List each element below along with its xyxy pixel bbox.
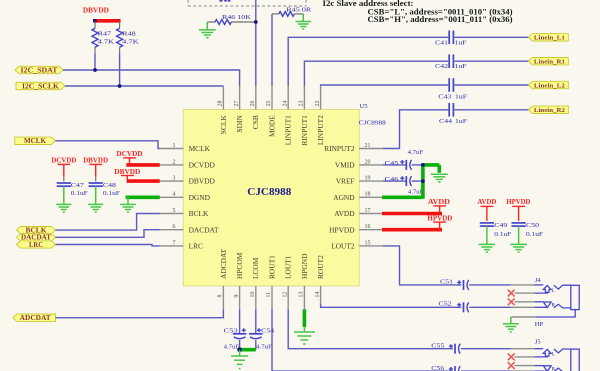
power DBVDD top bbox=[83, 6, 121, 21]
power AVDD at C49 bbox=[477, 197, 496, 221]
svg-text:LCOM: LCOM bbox=[251, 257, 260, 279]
svg-text:1: 1 bbox=[173, 143, 176, 149]
svg-text:4.7uF: 4.7uF bbox=[224, 343, 240, 350]
svg-text:C54: C54 bbox=[261, 328, 275, 335]
power DCVDD at pin 2 bbox=[117, 149, 143, 165]
svg-text:14: 14 bbox=[315, 292, 321, 298]
J5 R switch throw wire bbox=[514, 365, 543, 367]
J5 ring spring contact wave bbox=[554, 368, 571, 371]
capacitor C46 bbox=[385, 176, 424, 196]
svg-text:C55: C55 bbox=[431, 343, 445, 350]
wire ROUT1 pin 11 to C56 bbox=[272, 309, 453, 371]
svg-text:DACDAT: DACDAT bbox=[189, 225, 219, 234]
svg-text:BCLK: BCLK bbox=[189, 209, 209, 218]
wire HPCOM pin 9 down bbox=[239, 309, 241, 334]
svg-text:HPGND: HPGND bbox=[300, 253, 309, 279]
wire C55 to J5 tip bbox=[461, 348, 511, 350]
J5 L switch throw wire bbox=[514, 355, 547, 358]
chip left pin names bbox=[189, 144, 219, 250]
J5 tip spring contact wave bbox=[554, 349, 571, 353]
svg-text:C52: C52 bbox=[439, 301, 452, 308]
svg-text:DBVDD: DBVDD bbox=[114, 167, 140, 176]
chip top pin numbers bbox=[218, 101, 321, 107]
ground for R45 bbox=[302, 14, 304, 21]
svg-text:Linein_R1: Linein_R1 bbox=[534, 59, 565, 66]
svg-text:13: 13 bbox=[299, 292, 305, 298]
svg-text:6: 6 bbox=[173, 224, 176, 230]
svg-text:DBVDD: DBVDD bbox=[189, 177, 216, 186]
wire LINPUT1 to C41 bbox=[288, 37, 448, 86]
J5 ring contact triangle R bbox=[543, 366, 551, 371]
svg-text:AVDD: AVDD bbox=[428, 197, 450, 206]
port Linein_L1 bbox=[529, 34, 569, 41]
junction R46/CSB bbox=[254, 20, 258, 24]
J5 tip pin stub bbox=[511, 348, 535, 350]
svg-text:ADCDAT: ADCDAT bbox=[20, 314, 51, 322]
svg-text:C48: C48 bbox=[103, 182, 117, 189]
svg-text:10: 10 bbox=[250, 292, 256, 298]
resistor R48 bbox=[117, 22, 139, 86]
svg-text:ADCDAT: ADCDAT bbox=[219, 249, 228, 279]
svg-text:C49: C49 bbox=[494, 222, 508, 229]
svg-text:4.7uF: 4.7uF bbox=[408, 149, 424, 156]
wire HPGND pin 13 thick green bbox=[303, 309, 307, 327]
wire C46 to rail bbox=[412, 180, 423, 182]
svg-text:C44: C44 bbox=[439, 118, 453, 125]
svg-text:RINPUT2: RINPUT2 bbox=[324, 144, 355, 153]
svg-text:VMID: VMID bbox=[335, 161, 355, 170]
J4 L switch throw wire bbox=[514, 291, 547, 294]
ground AGND bbox=[431, 174, 448, 182]
svg-text:3: 3 bbox=[173, 176, 176, 182]
junction on DBVDD bar bbox=[93, 19, 97, 23]
J4 ring pin stub bbox=[511, 306, 535, 308]
wire ROUT2 pin 14 to C52 bbox=[321, 304, 462, 307]
svg-text:SDIN: SDIN bbox=[235, 115, 244, 133]
port I2C_SCLK bbox=[16, 82, 65, 89]
svg-text:LOUT1: LOUT1 bbox=[284, 255, 293, 279]
svg-text:C43: C43 bbox=[438, 94, 452, 101]
no-connect X on J5 L throw bbox=[508, 354, 515, 361]
power HPVDD at C50 bbox=[506, 197, 530, 221]
ground under C48 bbox=[95, 186, 97, 204]
svg-text:24: 24 bbox=[282, 101, 288, 107]
no-connect X on J5 R throw bbox=[508, 362, 515, 369]
port BCLK bbox=[17, 227, 56, 234]
chip bottom pins 8-14 stubs bbox=[223, 286, 320, 309]
svg-text:1uF: 1uF bbox=[455, 118, 467, 125]
wire VMID pin 20 to C45 bbox=[383, 164, 406, 166]
wire C42 to Linein_R1 bbox=[454, 60, 528, 62]
svg-text:CJC8988: CJC8988 bbox=[359, 119, 387, 126]
power AVDD at pin 17 bbox=[428, 197, 450, 214]
svg-text:0.1uF: 0.1uF bbox=[494, 231, 511, 238]
svg-text:MODE: MODE bbox=[267, 115, 276, 137]
svg-text:C56: C56 bbox=[431, 365, 445, 371]
svg-text:22: 22 bbox=[315, 101, 321, 107]
svg-text:11: 11 bbox=[266, 292, 272, 298]
port ADCDAT bbox=[13, 314, 56, 321]
wire C44 to Linein_R2 bbox=[454, 109, 528, 111]
wire LOUT1 pin 12 to C55 bbox=[288, 309, 453, 348]
chip bottom pin numbers bbox=[218, 292, 321, 298]
wire C43 to Linein_L2 bbox=[454, 84, 528, 86]
chip bottom pin names bbox=[219, 249, 325, 279]
capacitor C53 bbox=[224, 328, 247, 351]
port Linein_L2 bbox=[529, 81, 569, 88]
ground under C53 rail bbox=[239, 350, 241, 356]
svg-text:CJC8988: CJC8988 bbox=[247, 186, 292, 198]
svg-text:0.1uF: 0.1uF bbox=[103, 190, 120, 197]
port LRC bbox=[17, 241, 56, 248]
svg-text:4.7uF: 4.7uF bbox=[256, 343, 272, 350]
svg-text:9: 9 bbox=[234, 295, 240, 298]
J4 body bbox=[571, 285, 579, 309]
J4 ring spring contact wave bbox=[554, 304, 571, 308]
port Linein_R1 bbox=[529, 58, 569, 65]
svg-text:16: 16 bbox=[365, 224, 371, 230]
wire LRC to pin 7 bbox=[56, 245, 160, 246]
wire LCOM pin 10 down bbox=[255, 309, 257, 334]
ground for R46 bbox=[206, 22, 208, 30]
wire C56 to J5 ring bbox=[461, 370, 511, 371]
J4 tip spring contact wave bbox=[554, 285, 571, 289]
ground DGND bbox=[127, 197, 129, 204]
svg-text:0.1uF: 0.1uF bbox=[526, 231, 543, 238]
svg-text:AGND: AGND bbox=[333, 193, 355, 202]
svg-text:8: 8 bbox=[218, 295, 224, 298]
capacitor C52 bbox=[439, 301, 469, 313]
J5 ring pin stub bbox=[511, 370, 535, 371]
svg-text:12: 12 bbox=[282, 292, 288, 298]
svg-text:26: 26 bbox=[250, 101, 256, 107]
junction I2C_SCLK/R48 bbox=[118, 84, 122, 88]
wire LINPUT2 to C43 bbox=[321, 85, 449, 86]
chip left pins 1-7 stubs bbox=[160, 149, 184, 246]
capacitor C43 bbox=[438, 78, 467, 101]
capacitor C42 bbox=[435, 54, 467, 70]
svg-text:LINPUT2: LINPUT2 bbox=[316, 115, 325, 145]
svg-text:23: 23 bbox=[299, 101, 305, 107]
svg-text:DBVDD: DBVDD bbox=[83, 155, 108, 164]
note I2C slave address text bbox=[323, 0, 513, 24]
svg-text:Linein_R2: Linein_R2 bbox=[534, 107, 566, 114]
no-connect X on J4 R throw bbox=[508, 298, 515, 305]
wire DCVDD pin 2 thick red bbox=[126, 163, 160, 167]
port DACDAT bbox=[17, 234, 56, 241]
J4 R switch throw wire bbox=[514, 301, 543, 303]
wire C54 to green rail bbox=[255, 340, 257, 350]
wire HPVDD pin 16 thick red bbox=[382, 228, 442, 232]
svg-text:2: 2 bbox=[173, 159, 176, 165]
wire ADCDAT to pin 8 bbox=[56, 309, 224, 317]
wire C53 to green rail bbox=[239, 340, 241, 350]
svg-text:R47: R47 bbox=[98, 30, 112, 37]
svg-text:DCVDD: DCVDD bbox=[51, 155, 76, 164]
svg-text:C45: C45 bbox=[385, 160, 400, 167]
chip left pin numbers bbox=[173, 143, 176, 246]
svg-text:18: 18 bbox=[365, 192, 371, 198]
svg-text:LOUT2: LOUT2 bbox=[331, 242, 355, 251]
capacitor C55 bbox=[431, 343, 460, 354]
wire AGND thick green net bbox=[382, 165, 439, 199]
svg-text:HPCOM: HPCOM bbox=[235, 252, 244, 279]
svg-text:J4: J4 bbox=[535, 277, 542, 284]
capacitor C51 bbox=[440, 278, 469, 290]
J5 body bbox=[571, 349, 579, 371]
wire C45 to VMID cap rail bbox=[412, 164, 423, 166]
wire LOUT2 pin 15 to C51 bbox=[383, 246, 462, 285]
svg-text:C50: C50 bbox=[526, 222, 540, 229]
wire C41 to Linein_L1 bbox=[454, 36, 528, 38]
J4 sleeve wire bbox=[535, 310, 575, 317]
capacitor C47 bbox=[57, 182, 88, 197]
ground HPGND bbox=[303, 327, 305, 332]
svg-text:U5: U5 bbox=[360, 103, 369, 110]
wire MODE net vertical bbox=[271, 14, 273, 86]
svg-text:CSB: CSB bbox=[251, 115, 260, 129]
wire CSB net vertical bbox=[255, 0, 257, 86]
svg-text:AVDD: AVDD bbox=[334, 209, 355, 218]
J4 tip pin stub bbox=[511, 284, 535, 286]
resistor R45 bbox=[272, 7, 312, 17]
J4 sleeve pin stub bbox=[511, 316, 536, 318]
power DCVDD at C47 bbox=[51, 155, 76, 181]
chip right pin numbers bbox=[365, 143, 371, 246]
clipped text fragment inside dashed box bbox=[219, 0, 230, 2]
chip top pin names bbox=[219, 115, 325, 146]
no-connect X on J4 L throw bbox=[508, 290, 515, 297]
svg-text:DCVDD: DCVDD bbox=[189, 161, 216, 170]
svg-text:VREF: VREF bbox=[336, 177, 355, 186]
svg-text:0.1uF: 0.1uF bbox=[71, 190, 88, 197]
svg-text:MCLK: MCLK bbox=[24, 137, 47, 145]
wire C52 to J4 ring R bbox=[469, 306, 510, 308]
wire I2C_SCLK to SCLK pin 28 bbox=[65, 85, 223, 87]
svg-text:4: 4 bbox=[173, 192, 176, 198]
chip right pins 21-15 stubs bbox=[359, 149, 383, 246]
svg-text:L: L bbox=[551, 352, 555, 358]
svg-text:1uF: 1uF bbox=[455, 94, 467, 101]
svg-text:LINPUT1: LINPUT1 bbox=[284, 115, 293, 145]
junction green rail bbox=[237, 347, 242, 352]
wire DBVDD pin 3 thick red bbox=[127, 179, 160, 183]
svg-text:27: 27 bbox=[234, 101, 240, 107]
resistor R46 bbox=[207, 14, 256, 25]
svg-text:1uF: 1uF bbox=[455, 39, 467, 46]
ground under C50 bbox=[518, 226, 520, 244]
capacitor C49 bbox=[480, 222, 512, 238]
svg-text:I2C_SCLK: I2C_SCLK bbox=[22, 82, 60, 90]
wire VREF pin 19 to C46 bbox=[383, 180, 406, 182]
svg-text:Linein_L2: Linein_L2 bbox=[534, 82, 566, 89]
svg-text:28: 28 bbox=[218, 101, 224, 107]
svg-text:DCVDD: DCVDD bbox=[117, 149, 143, 158]
chip right pin names bbox=[324, 144, 355, 250]
ground J4 sleeve HP bbox=[510, 317, 512, 323]
svg-text:L: L bbox=[551, 288, 555, 294]
svg-text:17: 17 bbox=[365, 208, 371, 214]
resistor R47 bbox=[92, 22, 114, 70]
capacitor C45 bbox=[385, 149, 424, 170]
svg-text:C47: C47 bbox=[71, 182, 85, 189]
svg-text:19: 19 bbox=[365, 176, 371, 182]
wire C51 to J4 tip L bbox=[469, 284, 510, 286]
junction VMID rail bbox=[421, 163, 425, 167]
svg-text:20: 20 bbox=[365, 159, 371, 165]
wire MCLK to pin 1 bbox=[55, 141, 160, 149]
capacitor C48 bbox=[89, 182, 121, 197]
power HPVDD at pin 16 bbox=[427, 214, 452, 230]
svg-text:I2C_SDAT: I2C_SDAT bbox=[21, 66, 58, 74]
svg-text:15: 15 bbox=[365, 240, 371, 246]
svg-text:R48: R48 bbox=[122, 30, 136, 37]
wire AVDD pin 17 thick red bbox=[382, 212, 442, 216]
svg-text:1uF: 1uF bbox=[455, 63, 467, 70]
svg-text:C46: C46 bbox=[385, 176, 400, 183]
svg-text:DBVDD: DBVDD bbox=[83, 6, 109, 15]
junction VREF rail bbox=[421, 179, 425, 183]
svg-text:ROUT2: ROUT2 bbox=[316, 255, 325, 279]
ground under C47 bbox=[63, 186, 65, 204]
svg-text:Linein_L1: Linein_L1 bbox=[534, 35, 565, 42]
wire RINPUT2 pin 21 to C44 bbox=[383, 110, 449, 149]
port I2C_SDAT bbox=[15, 66, 63, 73]
svg-text:HPVDD: HPVDD bbox=[329, 225, 355, 234]
svg-text:ROUT1: ROUT1 bbox=[267, 255, 276, 279]
capacitor C54 bbox=[249, 328, 275, 351]
svg-text:SCLK: SCLK bbox=[219, 115, 228, 135]
J5 tip contact arrow L bbox=[543, 349, 551, 356]
capacitor C56 bbox=[431, 365, 460, 371]
wire BCLK to pin 5 bbox=[56, 214, 160, 231]
capacitor C44 bbox=[439, 103, 467, 125]
U5 reference designator label bbox=[359, 103, 387, 127]
port Linein_R2 bbox=[529, 106, 569, 113]
svg-text:4.7K: 4.7K bbox=[98, 39, 115, 46]
svg-text:HPVDD: HPVDD bbox=[427, 214, 452, 223]
wire DACDAT to pin 6 bbox=[56, 230, 160, 238]
svg-text:AVDD: AVDD bbox=[477, 197, 496, 206]
J4 tip contact arrow L bbox=[543, 286, 551, 293]
svg-text:DGND: DGND bbox=[189, 193, 211, 202]
capacitor C41 bbox=[435, 31, 467, 47]
wire DGND pin 4 thick green bbox=[126, 196, 160, 200]
capacitor C50 bbox=[512, 222, 544, 238]
svg-text:CSB="H", address="0011_011" (0: CSB="H", address="0011_011" (0x36) bbox=[368, 15, 513, 24]
svg-text:21: 21 bbox=[365, 143, 371, 149]
svg-text:J5: J5 bbox=[535, 339, 542, 346]
svg-text:25: 25 bbox=[266, 101, 272, 107]
svg-text:C51: C51 bbox=[440, 278, 453, 285]
svg-text:HPVDD: HPVDD bbox=[506, 197, 530, 206]
wire thick green rail C53-C54 bbox=[240, 348, 256, 352]
svg-text:5: 5 bbox=[173, 208, 176, 214]
power DBVDD at C48 bbox=[83, 155, 108, 181]
dashed selection box bottom edge bbox=[188, 0, 306, 6]
op-amp U1 codec chip U5 CJC8988 body bbox=[183, 110, 359, 286]
power DBVDD at pin 3 bbox=[114, 167, 140, 181]
J4 ring contact triangle R bbox=[543, 302, 551, 308]
svg-text:HP: HP bbox=[535, 321, 544, 328]
svg-text:C42: C42 bbox=[435, 63, 448, 70]
svg-text:C41: C41 bbox=[435, 39, 448, 46]
svg-text:LRC: LRC bbox=[29, 241, 43, 249]
svg-text:7: 7 bbox=[173, 240, 176, 246]
chip top pins 28-22 stubs bbox=[223, 86, 320, 110]
svg-text:LRC: LRC bbox=[189, 242, 203, 251]
svg-text:4.7K: 4.7K bbox=[122, 39, 139, 46]
svg-text:RINPUT1: RINPUT1 bbox=[300, 115, 309, 146]
junction I2C_SDAT/R47 bbox=[93, 68, 97, 72]
svg-text:MCLK: MCLK bbox=[189, 144, 211, 153]
port MCLK bbox=[15, 137, 56, 144]
wire RINPUT1 to C42 bbox=[304, 61, 448, 86]
ground under C49 bbox=[486, 226, 488, 244]
wire I2C_SDAT to SDIN pin 27 bbox=[63, 70, 240, 86]
